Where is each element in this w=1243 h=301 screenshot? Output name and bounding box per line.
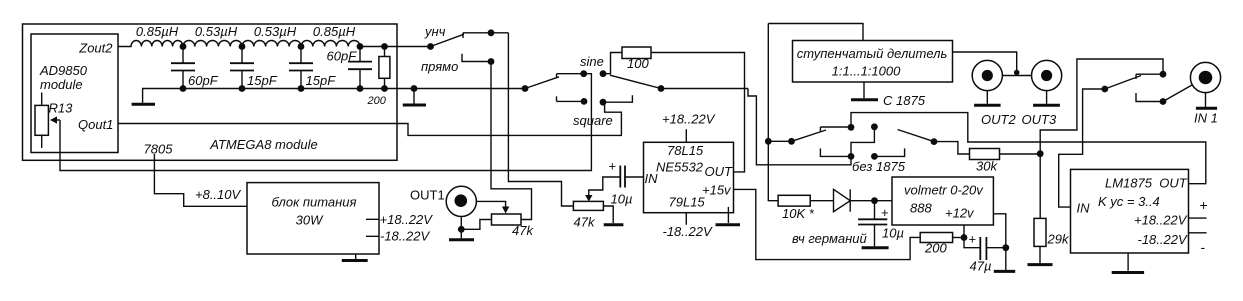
svg-text:47µ: 47µ	[970, 259, 992, 274]
svg-text:100: 100	[627, 56, 649, 71]
svg-text:NE5532: NE5532	[656, 160, 704, 175]
svg-text:LM1875 OUT: LM1875 OUT	[1105, 176, 1188, 191]
svg-text:10µ: 10µ	[882, 226, 904, 241]
svg-text:IN 1: IN 1	[1194, 111, 1218, 126]
svg-text:OUT2: OUT2	[981, 112, 1016, 127]
svg-text:-18..22V: -18..22V	[663, 224, 713, 239]
svg-text:-18..22V: -18..22V	[380, 229, 430, 244]
svg-text:+: +	[969, 232, 977, 247]
svg-text:0.53µH: 0.53µH	[195, 24, 238, 39]
svg-text:1:1...1:1000: 1:1...1:1000	[832, 64, 901, 79]
svg-text:OUT: OUT	[705, 164, 734, 179]
svg-text:78L15: 78L15	[667, 143, 704, 158]
svg-text:29k: 29k	[1047, 232, 1070, 247]
svg-text:OUT3: OUT3	[1022, 112, 1057, 127]
svg-text:+18..22V: +18..22V	[380, 212, 434, 227]
svg-text:volmetr 0-20v: volmetr 0-20v	[904, 183, 984, 198]
svg-text:888: 888	[910, 201, 932, 216]
svg-text:прямо: прямо	[421, 59, 458, 74]
svg-text:47k: 47k	[574, 215, 596, 230]
svg-text:0.53µH: 0.53µH	[254, 24, 297, 39]
svg-text:79L15: 79L15	[669, 195, 706, 210]
svg-text:47k: 47k	[512, 223, 534, 238]
svg-text:ступенчатый делитель: ступенчатый делитель	[797, 46, 948, 61]
svg-text:200: 200	[924, 241, 947, 256]
svg-text:R13: R13	[49, 101, 74, 116]
svg-text:0.85µH: 0.85µH	[136, 24, 179, 39]
svg-text:без 1875: без 1875	[852, 159, 906, 174]
svg-text:K ус = 3..4: K ус = 3..4	[1098, 194, 1160, 209]
svg-text:15pF: 15pF	[306, 73, 337, 88]
svg-text:30W: 30W	[296, 213, 324, 228]
svg-text:module: module	[40, 77, 83, 92]
svg-text:10µ: 10µ	[611, 192, 633, 207]
svg-text:-: -	[1201, 239, 1206, 255]
svg-text:ATMEGA8 module: ATMEGA8 module	[209, 137, 317, 152]
svg-text:7805: 7805	[144, 142, 174, 157]
svg-text:+: +	[609, 159, 617, 174]
svg-text:10K *: 10K *	[782, 206, 815, 221]
svg-text:+18..22V: +18..22V	[662, 112, 716, 127]
svg-text:sine: sine	[580, 54, 604, 69]
svg-text:+12v: +12v	[945, 206, 975, 221]
svg-text:блок питания: блок питания	[272, 195, 357, 210]
svg-text:30k: 30k	[976, 159, 998, 174]
svg-text:OUT1: OUT1	[410, 188, 445, 203]
svg-text:IN: IN	[645, 171, 659, 186]
svg-text:200: 200	[367, 95, 387, 107]
svg-text:вч германий: вч германий	[792, 231, 867, 246]
svg-text:IN: IN	[1077, 201, 1091, 216]
svg-text:60pF: 60pF	[327, 49, 358, 64]
svg-text:+18..22V: +18..22V	[1134, 213, 1188, 228]
svg-text:-18..22V: -18..22V	[1138, 232, 1188, 247]
svg-text:0.85µH: 0.85µH	[313, 24, 356, 39]
svg-text:Zout2: Zout2	[78, 41, 113, 56]
svg-text:square: square	[573, 113, 613, 128]
svg-text:AD9850: AD9850	[39, 63, 88, 78]
svg-text:C 1875: C 1875	[883, 93, 926, 108]
svg-text:Qout1: Qout1	[78, 117, 113, 132]
svg-text:+: +	[1200, 197, 1208, 213]
svg-text:60pF: 60pF	[188, 73, 219, 88]
svg-text:унч: унч	[424, 24, 446, 39]
svg-text:+8..10V: +8..10V	[195, 187, 242, 202]
svg-text:15pF: 15pF	[247, 73, 278, 88]
svg-text:+: +	[881, 205, 889, 220]
svg-text:+15v: +15v	[702, 183, 732, 198]
